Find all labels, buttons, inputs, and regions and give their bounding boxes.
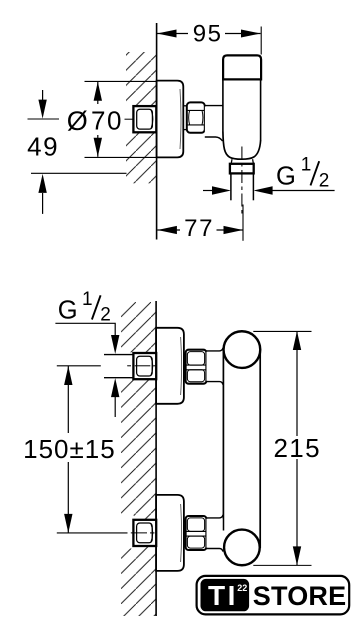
centre line dashes over lower fitting: [131, 532, 147, 534]
centre line dashes over upper fitting: [127, 365, 131, 367]
svg-text:TI: TI: [208, 580, 238, 611]
wall hatching (front view): [121, 302, 156, 616]
logo TI black box: [201, 579, 250, 611]
svg-text:1: 1: [82, 289, 93, 310]
valve body bottom dome: [223, 132, 261, 160]
dimension 215 top extension line: [253, 330, 311, 332]
G1/2 leader line: [55, 323, 115, 336]
svg-text:2: 2: [100, 305, 111, 326]
upper connector to body: [207, 352, 223, 381]
dimension Ø70 upper arrow: [97, 82, 99, 104]
lower wall fitting: [133, 520, 156, 546]
outlet collar: [230, 164, 254, 174]
G1/2 down arrow: [111, 335, 119, 354]
lower connector to body: [207, 519, 223, 548]
escutcheon inner edge line: [180, 89, 181, 149]
dimension 49 lower arrow: [42, 193, 44, 214]
dimension 77 line: [157, 229, 180, 231]
centre line dash at inlet: [125, 118, 133, 120]
supply pipe stub lines: [104, 354, 134, 356]
lower escutcheon: [156, 495, 184, 571]
dimension 95 line: [157, 33, 188, 35]
valve body sides: [222, 79, 224, 131]
svg-text:STORE: STORE: [253, 581, 347, 611]
dimension 77 right extension line: [242, 205, 244, 241]
pipe clearance in wall: [125, 104, 135, 136]
dimension Ø70 lower arrow: [97, 135, 99, 157]
nipple between escutcheon and nut: [183, 105, 187, 107]
outlet neck: [230, 159, 233, 164]
dimension 49 upper arrow: [42, 90, 44, 101]
pipe clearance in wall (upper): [104, 352, 135, 380]
bottom sphere: [224, 530, 260, 566]
bottom centre/extension line: [57, 532, 128, 534]
lower nipple: [184, 520, 186, 522]
wall face line: [156, 23, 158, 240]
top centre/extension line: [57, 365, 101, 367]
dimension 77 left arrow: [157, 226, 177, 234]
upper wall fitting: [133, 353, 156, 379]
connector nut to body: [205, 106, 223, 136]
upper nipple: [184, 354, 186, 356]
upper hex nut: [186, 350, 207, 384]
escutcheon (side view): [157, 81, 184, 158]
svg-text:22: 22: [237, 583, 247, 593]
svg-text:Ø: Ø: [67, 106, 88, 136]
dimension 150±15 arrows and line: [67, 366, 69, 433]
svg-text:95: 95: [193, 21, 223, 48]
top sphere: [224, 331, 261, 368]
svg-text:77: 77: [184, 215, 214, 242]
outlet pipe: [230, 173, 232, 200]
valve body top cap: [223, 55, 261, 79]
dimension 95 left arrow: [157, 30, 177, 38]
dimension 95 right arrow: [241, 30, 261, 38]
wall inlet fitting (square union): [133, 106, 156, 132]
dimension 95 right extension line: [260, 27, 262, 55]
svg-text:70: 70: [91, 106, 123, 136]
logo outer box: [197, 576, 350, 615]
svg-text:G: G: [276, 162, 296, 190]
G1/2 right arrow and leader: [272, 190, 335, 192]
G1/2 left arrow (top view): [203, 190, 213, 192]
lower hex nut: [186, 516, 207, 550]
svg-text:215: 215: [274, 433, 321, 463]
svg-text:G: G: [58, 297, 78, 325]
dimension 215 line and arrows: [296, 331, 298, 436]
dimension 215 bottom extension line: [253, 564, 311, 566]
svg-text:150±15: 150±15: [23, 434, 116, 464]
wall face line: [155, 301, 157, 616]
svg-text:1: 1: [301, 155, 312, 176]
dimension 77 right arrow: [224, 226, 244, 234]
body bar: [222, 349, 224, 531]
dimension 49 top reference tick: [28, 118, 60, 120]
G1/2 up arrow: [114, 397, 116, 417]
svg-text:49: 49: [27, 132, 59, 162]
escutcheon extension line top: [85, 80, 157, 82]
upper escutcheon: [156, 328, 184, 404]
hex nut (side view): [187, 102, 205, 132]
dimension 49 bottom reference line: [31, 172, 127, 174]
outlet centre line: [241, 147, 243, 215]
pipe clearance in wall (lower): [112, 516, 134, 549]
wall hatching (top view): [126, 52, 157, 183]
escutcheon extension line bottom: [85, 156, 157, 158]
svg-text:2: 2: [319, 170, 330, 191]
